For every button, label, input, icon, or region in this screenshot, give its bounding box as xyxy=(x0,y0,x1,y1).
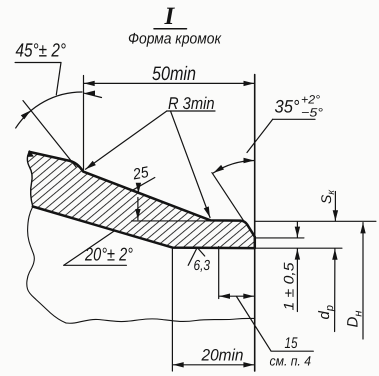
title underline xyxy=(154,28,187,30)
20 label angle leg xyxy=(64,231,115,265)
20 label underline xyxy=(64,264,127,266)
left wavy break line below body xyxy=(27,207,66,324)
svg-text:−5°: −5° xyxy=(301,106,323,120)
45 arc arrowhead at vertical ext line with tail xyxy=(84,93,101,97)
left wavy break edge of body xyxy=(27,152,32,207)
R3min leader 2 to bevel root xyxy=(171,111,211,218)
svg-text:Форма кромок: Форма кромок xyxy=(128,31,222,48)
svg-text:25: 25 xyxy=(131,164,150,184)
D_n dimension arrow xyxy=(362,223,364,339)
svg-text:см. п. 4: см. п. 4 xyxy=(270,354,312,369)
45 angle arc xyxy=(16,92,82,128)
dim 1±0,5 upper arrow xyxy=(296,222,298,237)
end face vertical line (extension over full height) xyxy=(254,75,256,372)
45 label leader xyxy=(56,63,61,95)
25 arrow to bevel face xyxy=(137,187,139,194)
svg-text:45°± 2°: 45°± 2° xyxy=(16,41,67,62)
45 arc arrowhead at slant line xyxy=(21,108,33,119)
svg-text:dр: dр xyxy=(316,305,336,319)
45 chamfer extension slant line xyxy=(23,101,76,167)
vertical extension line above bevel vertex xyxy=(83,76,85,171)
25 slanted shoulder xyxy=(131,178,155,192)
root level line inside body xyxy=(132,220,211,222)
svg-text:1 ± 0,5: 1 ± 0,5 xyxy=(281,262,297,310)
svg-text:15: 15 xyxy=(285,335,298,352)
svg-text:35°: 35° xyxy=(275,97,300,117)
50min dimension line xyxy=(84,82,254,84)
45 label underline xyxy=(15,62,61,64)
R3min leader 1 to upper vertex xyxy=(86,111,167,169)
body outline xyxy=(29,152,254,248)
svg-text:Sк: Sк xyxy=(318,189,337,204)
dim 15 leader xyxy=(237,297,314,352)
R3min underline xyxy=(167,110,215,112)
35 label underline xyxy=(273,118,315,120)
S_k lower arrow / d_p line xyxy=(334,249,336,332)
dim 15 dimension line xyxy=(219,295,254,297)
svg-text:Dн: Dн xyxy=(345,311,365,328)
end chamfer face extension line xyxy=(212,173,244,221)
svg-text:R 3min: R 3min xyxy=(168,94,215,113)
roughness mark 6,3 xyxy=(188,248,205,266)
peak spur at top-left corner xyxy=(27,151,33,157)
35 angle arc xyxy=(213,161,254,173)
svg-text:I: I xyxy=(164,3,176,30)
bore surface extension line xyxy=(255,247,342,249)
svg-text:20min: 20min xyxy=(201,346,244,364)
bottom wavy break line xyxy=(66,318,255,323)
20min left extension line xyxy=(171,249,173,372)
35 label leader xyxy=(247,119,273,152)
svg-text:6,3: 6,3 xyxy=(194,258,211,274)
dim 15 extension line xyxy=(218,247,220,299)
35 arc arrowhead at chamfer extension xyxy=(212,165,224,175)
35 arc arrowhead at vertical line xyxy=(244,158,255,163)
svg-text:+2°: +2° xyxy=(301,93,320,107)
outer surface extension line right xyxy=(255,220,376,222)
root face top extension line xyxy=(255,237,304,239)
pipe wall section (hatched body) xyxy=(27,152,254,248)
svg-text:50min: 50min xyxy=(152,63,196,85)
25 arrow to root level line xyxy=(137,198,139,220)
dim 1±0,5 lower arrow xyxy=(296,249,298,312)
S_k dimension upper arrow xyxy=(334,192,336,222)
20min dimension line xyxy=(173,364,254,366)
